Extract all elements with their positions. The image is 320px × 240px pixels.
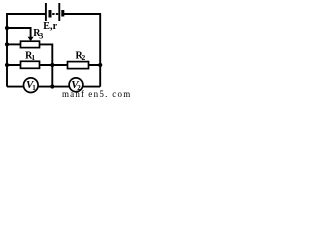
voltmeter V2 — [69, 78, 83, 92]
svg-text:en5. com: en5. com — [88, 89, 130, 98]
wire middle branch (R1,R2) — [7, 64, 100, 66]
svg-text:2: 2 — [82, 53, 86, 62]
svg-text:2: 2 — [77, 84, 81, 92]
svg-text:1: 1 — [31, 53, 35, 62]
wire R3 right terminal to vertical — [40, 44, 53, 86]
wire R3 top branch — [7, 28, 31, 38]
svg-text:3: 3 — [39, 31, 43, 40]
svg-text:E,: E, — [43, 21, 53, 32]
battery cell 2 long plate — [58, 3, 60, 21]
resistor R1 box — [21, 61, 40, 68]
wire top-right segment — [64, 14, 100, 87]
rheostat wiper arrowhead — [28, 37, 34, 41]
svg-text:r: r — [53, 21, 58, 32]
node dot left-middle — [5, 63, 9, 67]
resistor R3 box — [21, 41, 40, 47]
node dot left-R3left — [5, 42, 9, 46]
wire top-left segment — [7, 14, 46, 87]
wire bottom branch — [7, 86, 100, 88]
node dot right-middle — [98, 63, 102, 67]
node dot left-R3top — [5, 26, 9, 30]
node dot mid-vertical-bottom — [50, 84, 54, 88]
battery dashes — [52, 13, 54, 15]
battery cell 1 short plate — [49, 10, 52, 18]
node dot mid-vertical-middle — [50, 63, 54, 67]
voltmeter V1 — [24, 78, 39, 93]
wire R3 left terminal — [7, 43, 21, 45]
battery cell 1 long plate — [45, 3, 47, 21]
svg-text:1: 1 — [32, 84, 36, 92]
resistor R2 box — [68, 62, 89, 69]
battery cell 2 short plate — [61, 10, 64, 17]
